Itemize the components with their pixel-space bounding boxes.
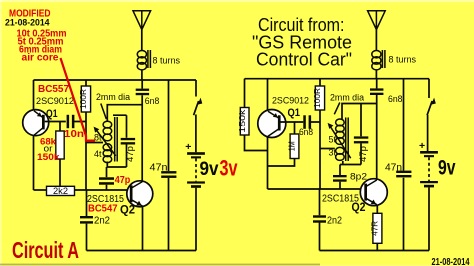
svg-text:2SC9012: 2SC9012	[36, 96, 74, 107]
wire: 68k top lead	[59, 122, 61, 132]
svg-text:47n: 47n	[385, 163, 402, 174]
svg-text:BC557: BC557	[38, 84, 69, 95]
wire: 68k bottom lead	[59, 159, 61, 187]
svg-text:2mm dia: 2mm dia	[330, 92, 364, 102]
svg-text:2SC9012: 2SC9012	[272, 96, 309, 107]
wire: left rail (through Q1)	[33, 80, 35, 190]
scan edge artifacts (decorative)	[0, 0, 474, 2]
inductor L2 8 turns	[372, 50, 385, 79]
wire: 47n branch right	[403, 79, 405, 251]
wire: 2n2 branch	[86, 190, 88, 251]
capacitor 2n2	[80, 216, 93, 224]
svg-text:5t: 5t	[329, 135, 337, 145]
svg-text:2k2: 2k2	[53, 186, 68, 196]
wire: 100R top lead	[319, 79, 321, 86]
wire: tank top	[107, 105, 142, 121]
battery B2 9v	[420, 151, 438, 187]
capacitor 6n8	[136, 89, 149, 96]
wire: Q2 emitter to 47R	[376, 206, 378, 214]
wire: tank bottom	[107, 162, 127, 168]
coil tuning arrow right	[328, 123, 351, 158]
wire: 47n branch from rail	[168, 80, 170, 251]
transistor Q2 2SC1815/BC547	[127, 181, 153, 207]
wire: antenna node down to 6n8	[141, 80, 143, 89]
wire: battery to bottom rail	[195, 188, 197, 251]
wire: tank top right	[342, 104, 377, 120]
wire: 47p down to tank bottom right	[360, 143, 362, 164]
svg-text:2mm dia: 2mm dia	[96, 92, 130, 102]
wire: 8p2 to bias rail	[339, 182, 341, 189]
svg-text:150k: 150k	[237, 109, 247, 133]
transistor Q1 2SC9012	[258, 110, 286, 138]
wire: 47p red to bias rail	[106, 185, 108, 190]
resistor 150k	[237, 108, 249, 136]
antenna ANT2	[368, 11, 386, 51]
svg-text:4t: 4t	[94, 149, 102, 159]
svg-text:+: +	[185, 141, 191, 153]
svg-text:47R: 47R	[371, 221, 380, 236]
wire: core top to 47p	[113, 115, 127, 138]
svg-text:150k: 150k	[37, 152, 60, 163]
resistor 68k/150k	[56, 131, 64, 159]
resistor 2k2	[47, 186, 75, 196]
svg-text:9v: 9v	[200, 158, 219, 180]
svg-text:+: +	[419, 140, 425, 152]
svg-text:8t: 8t	[94, 133, 102, 143]
wire: switch to battery	[195, 115, 197, 153]
svg-text:Control Car": Control Car"	[256, 50, 352, 70]
wire: 2n2 branch right	[319, 189, 321, 251]
svg-text:Q1: Q1	[288, 107, 301, 119]
antenna ANT1	[133, 11, 151, 51]
battery B1 9v	[187, 152, 205, 188]
wire: 150k bottom jog	[245, 135, 268, 151]
wire: 8p2 branch	[339, 165, 341, 176]
svg-text:100R: 100R	[78, 89, 88, 109]
svg-text:8 turns: 8 turns	[153, 55, 181, 66]
coil tuning arrow	[94, 127, 116, 156]
svg-text:6n8: 6n8	[299, 127, 313, 138]
wire: 100R down to bias rail	[319, 110, 321, 189]
wire: bias rail to Q2 base	[75, 189, 131, 191]
wire: top supply rail	[245, 78, 430, 80]
svg-text:Q1: Q1	[46, 108, 58, 120]
wire: antenna node to 6n8 top	[376, 79, 378, 89]
wire: 6n8 down to Q2 collector	[376, 95, 378, 179]
wire: bottom rail right	[320, 250, 430, 252]
wire: Q1 base lead	[281, 121, 321, 123]
wire: 100R top lead	[85, 80, 87, 86]
wire: switch stub	[195, 80, 197, 97]
wire: tank bottom to 47p red	[106, 167, 108, 177]
transistor Q2 2SC1815 right	[360, 179, 387, 206]
wire: 47p down to tank bottom	[126, 145, 128, 168]
capacitor 47p (tank)	[121, 138, 135, 145]
inductor L1 8 turns	[137, 50, 150, 80]
svg-text:10n: 10n	[64, 129, 84, 140]
transformer T1 coil 8t/4t	[103, 117, 117, 163]
wire: top supply rail	[34, 79, 197, 81]
svg-text:100R: 100R	[312, 88, 322, 108]
resistor 1M	[287, 134, 299, 159]
capacitor 47p right	[354, 136, 368, 143]
wire: bottom rail	[87, 250, 197, 252]
transistor Q1 BC557/2SC9012	[23, 110, 49, 136]
capacitor 6n8 (base)	[303, 115, 311, 129]
wire: Q1 base lead	[45, 121, 86, 123]
svg-text:9v: 9v	[438, 157, 456, 180]
capacitor 47n right	[396, 171, 411, 178]
svg-text:6n8: 6n8	[388, 94, 403, 105]
svg-text:47p: 47p	[358, 146, 368, 162]
red leader line to coil	[61, 58, 96, 141]
leader line 2mm dia	[101, 104, 107, 120]
svg-text:6n8: 6n8	[145, 96, 160, 107]
wire: bias rail left	[34, 189, 47, 191]
svg-text:8p2: 8p2	[350, 172, 367, 183]
resistor 100R	[78, 86, 90, 112]
wire: 1M bottom jog	[268, 159, 295, 167]
resistor 47R	[371, 213, 382, 243]
capacitor 47n	[161, 171, 176, 178]
svg-text:21-08-2014: 21-08-2014	[432, 257, 470, 266]
wire: Q2 emitter down	[142, 206, 144, 251]
transformer T2 coil 5t/3t	[336, 118, 349, 162]
wire: tank bottom right	[340, 161, 361, 165]
capacitor 8p2	[333, 175, 347, 182]
wire: coil tap right	[320, 148, 335, 150]
svg-text:3v: 3v	[220, 156, 239, 181]
wire: 47p branch right	[360, 104, 362, 137]
wire: 100R down / tap vertical	[85, 112, 87, 190]
svg-text:47n: 47n	[150, 163, 168, 174]
switch S2	[427, 98, 436, 116]
wire: battery to bottom rail right	[428, 187, 430, 250]
wire: Q1 feed from rail	[267, 79, 269, 110]
wire: 1M top lead	[294, 122, 296, 134]
svg-text:47p: 47p	[115, 175, 131, 186]
wire: switch to battery right	[427, 115, 429, 151]
wire: 6n8 down to Q2 collector	[141, 95, 143, 181]
wire: 47R to bottom rail	[376, 243, 378, 250]
capacitor 47p (red label)	[99, 177, 114, 184]
wire: bias rail right	[268, 188, 365, 190]
switch S1	[194, 98, 203, 116]
svg-text:3t: 3t	[329, 148, 337, 158]
wire: coil tap	[86, 142, 103, 144]
wire: Q1 emitter down to rail	[267, 137, 269, 189]
svg-text:air core: air core	[22, 53, 59, 64]
svg-text:Circuit A: Circuit A	[12, 237, 79, 263]
svg-text:8 turns: 8 turns	[389, 55, 417, 66]
wire: left rail top	[244, 79, 246, 108]
capacitor 2n2 right	[313, 215, 326, 222]
svg-text:2n2: 2n2	[327, 215, 342, 226]
wire: switch stub right	[428, 79, 430, 98]
leader line 2mm dia right	[334, 103, 340, 115]
capacitor 6n8 (top right)	[370, 88, 383, 95]
svg-text:Q2: Q2	[352, 200, 366, 214]
capacitor 10n	[67, 115, 75, 128]
svg-text:Q2: Q2	[120, 202, 135, 216]
svg-text:1M: 1M	[287, 141, 297, 151]
svg-text:BC547: BC547	[88, 203, 118, 214]
resistor 100R right	[312, 86, 325, 110]
svg-text:2n2: 2n2	[94, 215, 110, 226]
svg-text:21-08-2014: 21-08-2014	[5, 18, 50, 28]
